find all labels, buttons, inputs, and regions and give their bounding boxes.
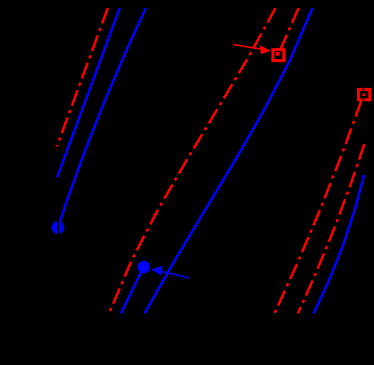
blue solid track D (short, from circle 2 down) (121, 267, 144, 314)
red annotation arrow pointing at square 1 (234, 45, 271, 55)
red dash-dot track R1 (left) (57, 8, 108, 147)
blue circle marker 2 (top of D) (138, 261, 151, 274)
red open square marker 2 (top of R4) (358, 89, 369, 99)
blue annotation arrow pointing at circle 2 (151, 266, 190, 278)
blue solid track C (middle long) (144, 8, 312, 314)
blue solid track B1 (left) (57, 8, 119, 177)
red dot inside square 1 (line end) (276, 52, 280, 56)
red open square marker 1 (end of R3) (273, 50, 284, 61)
red dash-dot track R2 (middle long) (109, 8, 276, 314)
black error bar slit through circle 1 (57, 221, 59, 235)
black error bar slit through square 2 (363, 86, 365, 103)
blue solid track B2 (left, ends at circle) (58, 8, 146, 227)
red dash-dot track R3 (short, ends at square 1) (278, 8, 299, 55)
blue solid track E (right) (313, 175, 364, 314)
red dot inside square 2 (line end) (362, 93, 365, 96)
blue circle marker 1 (on B2) (52, 221, 65, 234)
red dash-dot track R5 (right, from right edge) (298, 144, 365, 314)
red dash-dot track R4 (from square 2 down to axis) (274, 101, 361, 314)
